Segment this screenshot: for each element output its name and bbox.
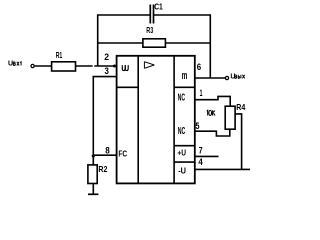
wire input to R1 xyxy=(35,65,52,67)
svg-text:U: U xyxy=(8,60,13,67)
svg-text:3: 3 xyxy=(105,66,109,77)
op-amp U1 +U cell divider xyxy=(174,145,195,147)
wire pin 7 xyxy=(195,155,219,157)
op-amp triangle symbol xyxy=(144,62,154,69)
wire pin 4 xyxy=(195,168,250,170)
svg-text:7: 7 xyxy=(199,146,203,156)
svg-text:1: 1 xyxy=(200,88,203,98)
wire R4 tap xyxy=(235,114,242,169)
svg-text:-U: -U xyxy=(178,166,186,176)
wire top feedback left segment xyxy=(98,15,151,66)
resistor R4 xyxy=(225,103,245,129)
op-amp U1 -U cell divider xyxy=(174,161,195,163)
value label 10k xyxy=(207,110,215,115)
wire gap to pin 2 xyxy=(94,65,116,67)
op-amp U1 body xyxy=(117,56,195,184)
capacitor C1 xyxy=(150,2,163,23)
resistor R3 xyxy=(143,26,166,47)
node FC junction dot xyxy=(92,154,95,157)
wire pin 6 output xyxy=(195,77,225,79)
wire top feedback right segment xyxy=(154,15,211,78)
svg-text:R4: R4 xyxy=(236,103,245,112)
svg-text:2: 2 xyxy=(104,52,109,63)
svg-text:FC: FC xyxy=(118,148,127,158)
op-amp U1 m cell divider xyxy=(174,86,195,88)
svg-text:R2: R2 xyxy=(98,165,107,174)
svg-text:C1: C1 xyxy=(154,2,163,11)
wire R2 to ground xyxy=(92,184,94,195)
svg-text:6: 6 xyxy=(197,62,201,73)
node Uvx1 input terminal xyxy=(8,60,34,67)
node pin2 junction dot xyxy=(113,65,116,68)
wire R3 branch left segment xyxy=(98,42,143,44)
ground xyxy=(88,193,98,195)
svg-text:R1: R1 xyxy=(56,51,63,60)
wire pin 3 loop xyxy=(93,77,116,156)
svg-text:4: 4 xyxy=(198,157,202,167)
svg-text:+U: +U xyxy=(177,148,186,158)
svg-text:8: 8 xyxy=(105,145,110,155)
node Uvyh output terminal xyxy=(225,73,244,80)
resistor R2 xyxy=(88,165,108,184)
wire FC pin 8 xyxy=(93,154,116,156)
svg-text:NC: NC xyxy=(178,125,186,137)
wire R1 to gap xyxy=(76,65,93,67)
wire pin 5 to R4 bottom xyxy=(195,129,230,136)
op-amp U1 W cell divider xyxy=(117,86,139,88)
resistor R1 xyxy=(52,51,76,71)
op-amp U1 right column divider xyxy=(173,56,175,184)
op-amp U1 left column divider xyxy=(137,56,139,184)
wire junction to R2 xyxy=(92,155,94,165)
svg-text:m: m xyxy=(182,70,188,82)
label W xyxy=(122,65,128,71)
svg-text:R3: R3 xyxy=(146,26,153,35)
svg-text:5: 5 xyxy=(196,121,200,131)
wire pin 1 to R4 top xyxy=(195,96,230,106)
wire R3 branch right segment xyxy=(165,42,210,44)
svg-text:NC: NC xyxy=(178,92,186,104)
